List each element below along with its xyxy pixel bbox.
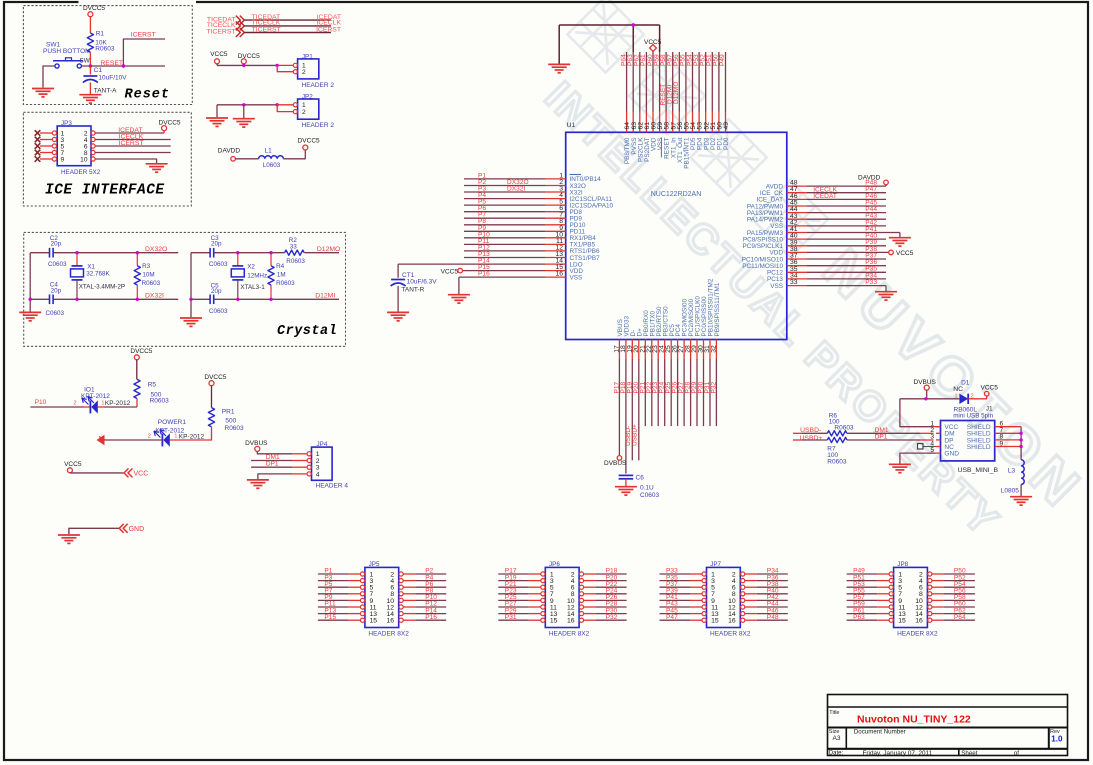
- diode D1: [959, 394, 968, 404]
- wire U1 pin41 VSS to ground: [899, 233, 901, 238]
- svg-text:15: 15: [370, 618, 378, 625]
- inductor L3: [1021, 460, 1024, 485]
- ground (L3): [1010, 497, 1032, 505]
- resistor R1: [87, 33, 93, 52]
- JP7 pin 16 wire P48: [741, 618, 745, 622]
- U1 pin 23 (PB2/RTS0) wire P23: [657, 340, 659, 360]
- svg-text:VCC5: VCC5: [441, 268, 459, 275]
- svg-text:ICEDAT: ICEDAT: [813, 193, 837, 200]
- svg-text:33: 33: [790, 279, 798, 286]
- JP3 pin 1 wire + no-connect: [35, 130, 41, 136]
- resistor R4: [270, 253, 272, 266]
- ground (JP4): [247, 480, 269, 488]
- U1 pin 54 (PD5) wire P54: [692, 52, 694, 112]
- JP7 pin 7 wire P39: [660, 593, 691, 595]
- JP7 pin 4 wire P36: [741, 579, 745, 583]
- JP5 pin 5 wire P5: [318, 586, 349, 588]
- U1 pin 13 (CTS1/PB7) wire P13: [464, 257, 545, 259]
- JP6 pin 7 wire P23: [498, 593, 529, 595]
- U1 pin 63 (PVSS) wire P63: [632, 25, 634, 112]
- U1 pin 2 (X32O) wire P2: [464, 185, 545, 187]
- Crystal block dashed border: [24, 232, 346, 346]
- U1 pin 8 (PD10) wire P8: [464, 224, 545, 226]
- U1 pin 27 (PC3/MOSI00) wire P27: [683, 340, 685, 360]
- capacitor CT1 on LDO: [397, 264, 399, 278]
- JP7 pin 6 wire P38: [741, 585, 745, 589]
- wire VCC5 to VCC flag: [69, 472, 71, 474]
- JP7 pin 1 wire P33: [660, 573, 691, 575]
- U1 pin 4 (I2C1SCL/PA11) wire P4: [464, 198, 545, 200]
- U1 pin 22 (PB1/TX0) wire P22: [651, 340, 653, 360]
- JP5 pin 3 wire P3: [318, 580, 349, 582]
- svg-text:mini USB 5pin: mini USB 5pin: [953, 413, 993, 420]
- JP5 pin 16 wire P16: [399, 618, 403, 622]
- svg-text:PUSH BOTTOM: PUSH BOTTOM: [43, 48, 91, 55]
- wire C6 to ground: [625, 479, 627, 486]
- U1 pin 57 (XT1_In) wire P57: [672, 52, 674, 112]
- capacitor C4: [49, 295, 51, 305]
- U1 pin 55 (PB15/INT1) wire P55: [685, 52, 687, 112]
- svg-text:VCC5: VCC5: [210, 51, 228, 58]
- wire DVBUS to J1 pin1: [900, 399, 934, 427]
- svg-text:15: 15: [898, 618, 906, 625]
- U1 pin 11 (TX1/PB5) wire P11: [464, 243, 545, 245]
- svg-text:Sheet: Sheet: [961, 750, 977, 757]
- svg-text:HEADER 8X2: HEADER 8X2: [368, 630, 409, 637]
- JP6 pin 8 wire P24: [579, 592, 583, 596]
- svg-text:Nuvoton NU_TINY_122: Nuvoton NU_TINY_122: [857, 714, 971, 726]
- svg-text:R3: R3: [142, 263, 151, 270]
- wire D1 to VCC5: [968, 396, 987, 399]
- svg-text:PB9/SPISS11/TM1: PB9/SPISS11/TM1: [714, 282, 721, 336]
- svg-text:P49: P49: [719, 54, 726, 66]
- U1 pin 6 (PD8) wire P6: [464, 211, 545, 213]
- U1 pin 64 (PB8/TM0) wire P64: [626, 52, 628, 112]
- JP8 pin 6 wire P54: [928, 585, 932, 589]
- ground (U1 pin33): [875, 292, 897, 300]
- svg-text:DX32O: DX32O: [145, 246, 167, 253]
- U1 pin 34 (PC13) wire P34: [787, 278, 807, 280]
- JP5 pin 15 wire P15: [318, 619, 349, 621]
- ground (C6): [615, 487, 637, 495]
- svg-text:2: 2: [73, 400, 76, 406]
- junction DVBUS: [924, 397, 927, 400]
- crystal X2: [237, 253, 239, 266]
- svg-text:C0603: C0603: [209, 261, 228, 268]
- svg-text:GND: GND: [944, 451, 959, 458]
- power VCC5 (D1): [984, 391, 989, 396]
- svg-text:1: 1: [954, 394, 957, 400]
- JP8 pin 9 wire P57: [847, 599, 878, 601]
- wire C1 to ground: [89, 83, 91, 95]
- JP5 pin 7 wire P7: [318, 593, 349, 595]
- svg-text:VCC: VCC: [134, 471, 149, 478]
- svg-text:Document Number: Document Number: [854, 729, 906, 736]
- U1 pin 12 (RTS1/PB6) wire P12: [464, 250, 545, 252]
- JP5 pin 9 wire P9: [318, 599, 349, 601]
- U1 pin 7 (PD9) wire P7: [464, 217, 545, 219]
- svg-text:KP-2012: KP-2012: [179, 434, 205, 441]
- JP8 pin 15 wire P63: [847, 619, 878, 621]
- U1 pin 42 (VSS) wire P42: [787, 225, 807, 227]
- resistor PR1: [208, 408, 214, 427]
- JP5 pin 4 wire P4: [399, 579, 403, 583]
- svg-text:32.768K: 32.768K: [86, 270, 110, 277]
- svg-text:POWER1: POWER1: [158, 419, 187, 426]
- U1 pin 58 (RESET) wire P58: [665, 52, 667, 112]
- junction JP2 b: [276, 103, 279, 106]
- U1 pin 1 (INT0/PB14) wire P1: [464, 178, 545, 180]
- U1 pin 35 (PC12) wire P35: [787, 271, 807, 273]
- svg-text:2: 2: [302, 109, 306, 116]
- junction JP1 a: [242, 64, 245, 67]
- svg-text:16: 16: [387, 618, 395, 625]
- U1 pin 29 (PC1/SPICLK0) wire P29: [696, 340, 698, 360]
- svg-text:12MHz: 12MHz: [247, 273, 267, 280]
- connector J1 USB_MINI_B: [941, 421, 995, 461]
- svg-text:49: 49: [723, 122, 730, 130]
- U1 RESET pin58 overline: [660, 138, 662, 158]
- svg-text:P64: P64: [954, 614, 966, 621]
- svg-text:DVCC5: DVCC5: [238, 53, 260, 60]
- LED POWER1: [161, 434, 163, 447]
- wire 32k bottom rail / node DX32I: [30, 298, 49, 300]
- svg-text:P31: P31: [505, 614, 517, 621]
- node RESET wire: [82, 65, 166, 67]
- svg-text:Crystal: Crystal: [277, 324, 337, 339]
- svg-text:DP1: DP1: [875, 434, 888, 441]
- svg-text:ICE INTERFACE: ICE INTERFACE: [45, 183, 165, 199]
- JP6 pin 16 wire P32: [579, 618, 583, 622]
- svg-text:R0603: R0603: [142, 280, 161, 287]
- JP7 pin 3 wire P35: [660, 580, 691, 582]
- svg-text:HEADER 2: HEADER 2: [302, 122, 335, 129]
- svg-text:4: 4: [316, 471, 320, 478]
- wire 12M bottom rail / node D12MI: [191, 298, 210, 300]
- U1 pin 38 (VDD) wire P38: [787, 251, 807, 253]
- svg-text:DVCC5: DVCC5: [298, 137, 320, 144]
- svg-text:2: 2: [302, 69, 306, 76]
- U1 pin 39 (PC9/SPICLK1) wire P39: [787, 245, 807, 247]
- svg-text:ICERST: ICERST: [316, 26, 341, 33]
- JP3 pin 4 wire: [91, 137, 95, 141]
- junction (R1/C1): [89, 64, 92, 67]
- U1 pin 60 (VDD) wire P60: [652, 51, 654, 112]
- JP6 pin 6 wire P22: [579, 585, 583, 589]
- svg-text:P15: P15: [324, 614, 336, 621]
- JP6 pin 1 wire P17: [498, 573, 529, 575]
- svg-text:VSS: VSS: [770, 283, 783, 290]
- JP6 pin 10 wire P26: [579, 598, 583, 602]
- svg-text:SHIELD: SHIELD: [967, 444, 991, 451]
- U1 pin 56 (XT1_Out) wire P56: [678, 52, 680, 112]
- ground (32k): [19, 312, 41, 320]
- JP6 pin 3 wire P19: [498, 580, 529, 582]
- JP7 pin 14 wire P46: [741, 612, 745, 616]
- JP8 pin 5 wire P53: [847, 586, 878, 588]
- wire 12M left rail to ground: [190, 253, 192, 318]
- wire JP2 rail: [217, 104, 277, 106]
- U1 pin 25 (PC5) wire P25: [670, 340, 672, 360]
- svg-text:16: 16: [555, 271, 563, 278]
- JP6 pin 2 wire P18: [579, 572, 583, 576]
- ground (C1): [79, 95, 101, 103]
- U1 pin 37 (PC10/MISO10) wire P37: [787, 258, 807, 260]
- svg-text:A3: A3: [833, 735, 841, 742]
- wire GND flag: [69, 528, 119, 534]
- capacitor C2: [49, 248, 51, 258]
- wire J1 shield bus: [1020, 427, 1022, 460]
- svg-text:VCC5: VCC5: [64, 461, 82, 468]
- wire DVBUS rail: [926, 390, 928, 399]
- svg-text:DVCC5: DVCC5: [130, 348, 152, 355]
- svg-text:HEADER 8X2: HEADER 8X2: [549, 630, 590, 637]
- JP5 pin 10 wire P10: [399, 598, 403, 602]
- svg-text:0.1U: 0.1U: [640, 485, 654, 492]
- U1 pin 10 (RX1/PB4) wire P10: [464, 237, 545, 239]
- JP3 pin 5 wire + no-connect: [35, 143, 41, 149]
- U1 pin 19 (D-) wire P19: [631, 340, 633, 360]
- U1 pin 52 (PD3) wire P52: [705, 52, 707, 112]
- JP6 pin 13 wire P29: [498, 613, 529, 615]
- svg-text:R0603: R0603: [286, 258, 305, 265]
- resistor R3: [136, 253, 138, 266]
- svg-text:J1: J1: [986, 406, 993, 413]
- svg-text:HEADER 5X2: HEADER 5X2: [61, 169, 101, 176]
- U1 pin 50 (PD1) wire P50: [718, 52, 720, 112]
- JP3 pin 2 wire: [91, 131, 95, 135]
- U1 pin 36 (PC11/MOSI10) wire P36: [787, 265, 807, 267]
- ground (U1 top VSS): [548, 64, 570, 72]
- LED IO1: [89, 401, 91, 414]
- svg-text:ICERST: ICERST: [119, 140, 144, 147]
- JP7 pin 8 wire P40: [741, 592, 745, 596]
- svg-text:C6: C6: [636, 475, 645, 482]
- JP5 pin 1 wire P1: [318, 573, 349, 575]
- resistor R2: [285, 250, 305, 255]
- junction crystal left: [29, 298, 32, 301]
- ground (12M): [180, 318, 202, 326]
- wire DVCC5 to R5: [136, 360, 138, 380]
- wire to JP1 pins: [277, 64, 293, 66]
- node DVBUS (pin17): [617, 456, 622, 461]
- wire CT1 to ground: [397, 286, 399, 312]
- svg-text:R0603: R0603: [150, 397, 170, 404]
- U1 pin 47 (ICE_CK) wire P47: [787, 192, 807, 194]
- svg-text:VCC5: VCC5: [896, 250, 914, 257]
- svg-text:33: 33: [290, 244, 298, 251]
- wire R5 to IO1: [136, 399, 138, 408]
- svg-text:DX32I: DX32I: [507, 186, 525, 193]
- inductor L1: [259, 156, 284, 159]
- JP7 pin 11 wire P43: [660, 606, 691, 608]
- svg-text:DVCC5: DVCC5: [204, 374, 226, 381]
- svg-text:USBD+: USBD+: [800, 435, 823, 442]
- svg-text:R4: R4: [276, 263, 285, 270]
- JP5 pin 11 wire P11: [318, 606, 349, 608]
- JP3 pin 10 wire: [91, 157, 95, 161]
- JP8 pin 10 wire P58: [928, 598, 932, 602]
- U1 pin 17 (VBUS) wire P17: [618, 340, 620, 360]
- watermark diagonal text: [536, 0, 1093, 546]
- U1 pin 21 (PB0/RX0) wire P21: [644, 340, 646, 360]
- wire R1 to RESET node: [89, 52, 91, 66]
- ground (U1 pin41): [889, 238, 911, 246]
- JP8 pin 1 wire P49: [847, 573, 878, 575]
- svg-text:10: 10: [80, 156, 88, 163]
- JP7 pin 5 wire P37: [660, 586, 691, 588]
- U1 pin 24 (PB3/CTS0) wire P24: [664, 340, 666, 360]
- U1 pin 31 (PB10/SPISS01/TM2) wire P31: [709, 340, 711, 360]
- capacitor C3: [209, 248, 211, 258]
- JP8 pin 3 wire P51: [847, 580, 878, 582]
- svg-text:500: 500: [225, 417, 236, 424]
- svg-text:R0603: R0603: [225, 425, 245, 432]
- wire L3 to ground: [1020, 485, 1022, 497]
- svg-text:DAVDD: DAVDD: [858, 175, 881, 182]
- svg-text:C0603: C0603: [46, 310, 65, 317]
- wire R2 to node D12MO: [304, 252, 339, 254]
- svg-text:ICERST: ICERST: [131, 32, 156, 39]
- JP3 pin 6 wire: [91, 144, 95, 148]
- power flag VCC: [124, 468, 129, 477]
- svg-text:1M: 1M: [277, 272, 286, 279]
- svg-text:C0603: C0603: [48, 261, 67, 268]
- U1 pin 15 (VDD) wire P15: [462, 270, 545, 272]
- capacitor C5: [209, 295, 211, 305]
- JP5 pin 8 wire P8: [399, 592, 403, 596]
- svg-text:P48: P48: [767, 614, 779, 621]
- svg-text:HEADER 8X2: HEADER 8X2: [897, 630, 938, 637]
- svg-text:X2: X2: [247, 264, 255, 271]
- U1 pin 45 (PA12/PWM0) wire P45: [787, 205, 807, 207]
- title block: [828, 695, 1068, 756]
- svg-text:DX32I: DX32I: [145, 293, 164, 300]
- wire SW1 left to ground: [43, 66, 55, 88]
- crystal X1: [76, 253, 78, 266]
- svg-text:TANT-R: TANT-R: [401, 286, 424, 293]
- junction JP2 a: [242, 103, 245, 106]
- U1 pin1 INT0 overline: [570, 174, 582, 176]
- U1 pin 18 (VDD33) wire P18: [625, 340, 627, 360]
- junction shield 8: [1019, 438, 1022, 441]
- power flag GND: [119, 524, 124, 533]
- U1 pin 9 (PD11) wire P9: [464, 230, 545, 232]
- ground (J1 pin5): [889, 464, 911, 472]
- svg-text:KP-2012: KP-2012: [105, 400, 131, 407]
- svg-text:D12MO: D12MO: [317, 246, 340, 253]
- JP8 pin 8 wire P56: [928, 592, 932, 596]
- svg-text:C1: C1: [94, 67, 103, 74]
- svg-text:RESET: RESET: [100, 60, 123, 67]
- svg-text:GND: GND: [129, 526, 145, 533]
- JP8 pin 2 wire P50: [928, 572, 932, 576]
- svg-text:D12MI: D12MI: [315, 293, 335, 300]
- svg-text:NUC122RD2AN: NUC122RD2AN: [651, 191, 702, 198]
- svg-text:USBD+: USBD+: [631, 424, 638, 446]
- svg-text:DVCC5: DVCC5: [83, 5, 105, 12]
- svg-text:PR1: PR1: [222, 408, 235, 415]
- svg-text:20p: 20p: [51, 287, 62, 294]
- ground (JP3 pin10): [146, 164, 168, 172]
- wire VCC5/DVCC5 to JP1: [216, 64, 218, 66]
- svg-text:Reset: Reset: [125, 88, 171, 103]
- svg-text:16: 16: [567, 618, 575, 625]
- svg-text:P10: P10: [35, 399, 47, 406]
- wire U1 top VSS rail to ground: [559, 24, 659, 26]
- svg-text:VCC5: VCC5: [981, 385, 999, 392]
- JP5 pin 12 wire P12: [399, 605, 403, 609]
- svg-text:P16: P16: [478, 271, 490, 278]
- svg-text:P63: P63: [853, 614, 865, 621]
- ground arrow (POWER1): [97, 435, 105, 445]
- svg-text:10uF/6.3V: 10uF/6.3V: [407, 279, 438, 286]
- junction top VSS: [632, 23, 635, 26]
- JP8 pin 11 wire P59: [847, 606, 878, 608]
- svg-text:16: 16: [915, 618, 923, 625]
- ground (SW1): [32, 89, 54, 97]
- wire U1 VSS pin16 to ground: [458, 277, 460, 294]
- wire to JP2 pins: [277, 104, 293, 106]
- ground (CT1): [387, 312, 409, 320]
- svg-text:U1: U1: [567, 122, 576, 129]
- svg-text:10uF/10V: 10uF/10V: [98, 75, 127, 82]
- power VCC5 (U1 pin38 VDD): [889, 250, 894, 255]
- svg-text:XTAL3-1: XTAL3-1: [240, 284, 265, 291]
- svg-text:DVBUS: DVBUS: [604, 460, 627, 467]
- svg-text:TANT-A: TANT-A: [94, 88, 117, 95]
- JP6 pin 11 wire P27: [498, 606, 529, 608]
- svg-text:DAVDD: DAVDD: [218, 148, 241, 155]
- svg-text:TICERST: TICERST: [252, 26, 281, 33]
- svg-text:R0603: R0603: [834, 425, 854, 432]
- JP6 pin 5 wire P21: [498, 586, 529, 588]
- ground (JP2 mid): [233, 119, 255, 127]
- svg-text:NC: NC: [953, 386, 963, 393]
- JP5 pin 2 wire P2: [399, 572, 403, 576]
- svg-text:HEADER 4: HEADER 4: [316, 483, 349, 490]
- JP3 pin 9 wire + no-connect: [35, 156, 41, 162]
- node ICERST wire: [123, 39, 165, 66]
- wire DVBUS to JP4 pin1: [257, 451, 292, 453]
- U1 pin 3 (X32I) wire P3: [464, 191, 545, 193]
- svg-text:9: 9: [61, 156, 65, 163]
- U1 pin 30 (PC0/SPISS00) wire P30: [703, 340, 705, 360]
- JP3 pin 7 wire + no-connect: [35, 150, 41, 156]
- svg-text:R0603: R0603: [827, 458, 847, 465]
- ground (U1 pin16): [448, 295, 470, 303]
- wire TICECLK: [244, 25, 331, 27]
- svg-text:15: 15: [711, 618, 719, 625]
- svg-text:Friday, January 07, 2011: Friday, January 07, 2011: [863, 750, 933, 757]
- JP8 pin 7 wire P55: [847, 593, 878, 595]
- svg-text:15: 15: [550, 618, 558, 625]
- junction 12M left: [189, 298, 192, 301]
- JP7 pin 10 wire P42: [741, 598, 745, 602]
- U1 pin 33 (VSS) wire P33: [787, 285, 807, 287]
- wire DVCC5 to PR1: [211, 386, 213, 408]
- wire U1 pin33 VSS to ground: [885, 286, 887, 291]
- U1 pin 28 (PC2/MISO00) wire P28: [690, 340, 692, 360]
- wire JP2 mid to ground: [243, 105, 245, 118]
- U1 pin 41 (PA15/PWM3) wire P41: [787, 232, 807, 234]
- svg-text:L0603: L0603: [263, 162, 281, 169]
- svg-text:2: 2: [148, 434, 151, 440]
- JP8 pin 13 wire P61: [847, 613, 878, 615]
- Reset block dashed border: [23, 6, 192, 105]
- svg-text:VSS: VSS: [570, 274, 583, 281]
- svg-text:P33: P33: [865, 279, 877, 286]
